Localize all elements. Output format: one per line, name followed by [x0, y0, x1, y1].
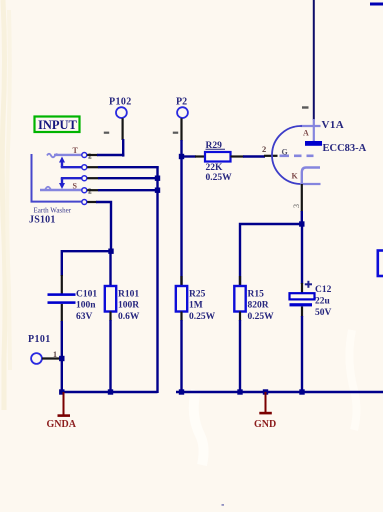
- svg-text:3: 3: [292, 204, 301, 208]
- anode feed wire from top: [313, 0, 315, 120]
- envelope bottom line: [300, 183, 321, 185]
- junction bus R15: [237, 389, 242, 394]
- envelope top line: [301, 125, 321, 127]
- svg-text:P2: P2: [176, 97, 187, 108]
- svg-text:0.25W: 0.25W: [189, 312, 216, 322]
- svg-text:R15: R15: [248, 290, 265, 300]
- svg-text:K: K: [292, 172, 299, 181]
- resistor R29: [205, 141, 232, 183]
- plus sign: [305, 283, 312, 285]
- svg-text:INPUT: INPUT: [38, 118, 78, 132]
- resistor R101: [105, 250, 140, 393]
- capacitor C12: [290, 224, 332, 393]
- junction P2/R29/R25: [179, 154, 184, 159]
- jack JS101 frame wire: [32, 154, 85, 202]
- wire row5 earth to R101 node: [96, 202, 111, 251]
- resistor partial right edge: [378, 251, 383, 277]
- svg-text:R101: R101: [118, 290, 139, 300]
- jack switch wire row2: [61, 166, 82, 167]
- ground GND: [254, 392, 276, 430]
- svg-text:100n: 100n: [76, 301, 96, 311]
- anode lead: [313, 119, 315, 142]
- left ground bus (GNDA): [62, 391, 158, 393]
- connector P2: [173, 97, 188, 142]
- jack sleeve contact: [40, 187, 82, 190]
- wire jack tie vertical down to bus: [156, 166, 158, 393]
- svg-text:0.25W: 0.25W: [248, 312, 275, 322]
- wire node to C101: [62, 251, 111, 276]
- resistor R25: [176, 276, 216, 393]
- wire node to R15: [240, 224, 302, 286]
- junction bus R101: [108, 389, 113, 394]
- svg-text:T: T: [73, 146, 79, 155]
- svg-text:C12: C12: [315, 285, 332, 295]
- grid dashes: [280, 155, 290, 158]
- pin number 1 (rotated): [302, 106, 309, 108]
- ground GNDA: [47, 392, 77, 430]
- junction bus C12: [299, 389, 304, 394]
- stray dot: [222, 504, 225, 506]
- svg-text:P101: P101: [28, 334, 51, 345]
- svg-text:C101: C101: [76, 290, 97, 300]
- jack switch arrow down: [59, 179, 65, 190]
- junction P101/C101: [59, 356, 64, 361]
- jack pin circles: [82, 153, 87, 158]
- cathode lead down: [301, 184, 303, 212]
- svg-text:0.6W: 0.6W: [118, 312, 140, 322]
- capacitor C101: [48, 275, 98, 322]
- svg-text:0.25W: 0.25W: [206, 173, 233, 183]
- scan artifact streaks left edge: [2, 0, 5, 410]
- svg-text:GNDA: GNDA: [47, 419, 77, 430]
- resistor R15: [234, 276, 274, 393]
- connector P101: [28, 334, 62, 364]
- svg-text:100R: 100R: [118, 301, 139, 311]
- svg-text:2: 2: [262, 144, 266, 154]
- svg-text:JS101: JS101: [29, 215, 56, 226]
- svg-text:P102: P102: [109, 97, 132, 108]
- junction row4 tie: [155, 188, 160, 193]
- svg-text:22u: 22u: [315, 297, 331, 307]
- right ground bus (GND): [176, 391, 383, 393]
- anode bar: [305, 141, 322, 146]
- junction R101/C101/earth: [108, 249, 113, 254]
- svg-text:1M: 1M: [189, 301, 203, 311]
- svg-text:22K: 22K: [206, 163, 224, 173]
- triode V1A: [272, 0, 367, 212]
- svg-text:GND: GND: [254, 419, 276, 430]
- jack tip contact: [47, 154, 82, 158]
- jack pin stubs (black): [87, 154, 98, 156]
- wire cathode to node: [301, 211, 303, 225]
- svg-text:820R: 820R: [248, 301, 269, 311]
- wire row3 to tie: [98, 177, 159, 179]
- junction row3 tie: [155, 176, 160, 181]
- svg-text:S: S: [73, 182, 78, 191]
- grid pin wire (black): [264, 155, 278, 157]
- jack switch arrow up: [59, 157, 65, 168]
- svg-text:Earth Washer: Earth Washer: [34, 207, 72, 215]
- wire R29 to grid: [231, 155, 245, 157]
- wire node to R29: [182, 155, 197, 157]
- wire row1 to P102: [97, 154, 124, 156]
- cathode: [302, 168, 320, 185]
- connector P102: [104, 97, 132, 157]
- svg-text:63V: 63V: [76, 312, 93, 322]
- INPUT label box: [35, 117, 80, 133]
- junction bus GND stub: [263, 389, 268, 394]
- jack switch wire row3: [61, 177, 82, 179]
- top plate (box): [290, 293, 315, 299]
- svg-text:R25: R25: [189, 290, 206, 300]
- power rail stub top right: [370, 3, 383, 6]
- wire row4 to tie: [98, 189, 159, 191]
- wire row2 to tie: [98, 166, 159, 168]
- junction bus left end: [59, 389, 64, 394]
- svg-text:A: A: [303, 129, 309, 138]
- wire P2/R25 vertical: [180, 157, 182, 287]
- svg-text:ECC83-A: ECC83-A: [323, 143, 367, 154]
- wire C101 to bus: [61, 321, 63, 393]
- wire P2 down to R29 node: [180, 140, 182, 157]
- junction cathode/R15/C12: [299, 221, 304, 226]
- svg-text:50V: 50V: [315, 308, 332, 318]
- junction bus R25: [179, 389, 184, 394]
- bottom plate: [290, 303, 313, 306]
- svg-text:G: G: [282, 148, 288, 157]
- envelope arc: [272, 126, 302, 184]
- svg-text:V1A: V1A: [322, 119, 345, 131]
